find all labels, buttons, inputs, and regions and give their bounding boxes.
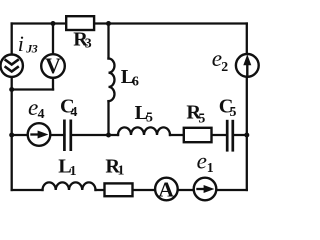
resistor R3 [66,16,94,30]
svg-text:2: 2 [221,59,228,74]
svg-text:1: 1 [70,163,77,178]
node at top wire / V branch [51,21,56,26]
wire bottom left segment [12,189,43,191]
wire top horizontal [12,22,247,24]
svg-text:5: 5 [146,110,153,125]
svg-text:6: 6 [132,74,139,89]
capacitor C5 [227,120,233,152]
svg-text:e: e [197,149,207,175]
wire left rail vertical [11,24,13,191]
node at middle row / L6 [106,133,111,138]
voltage source e2 [236,54,259,77]
wire middle row after C5 [233,134,247,136]
wire middle row between L5 and C5 [170,134,227,136]
voltmeter V [41,54,65,78]
wire right rail vertical [246,24,248,191]
svg-text:1: 1 [118,163,125,178]
inductor L1 [43,182,96,190]
inductor L5 [118,127,170,135]
voltage source e4 [28,123,51,146]
wire L6 branch bottom vertical [107,101,109,135]
svg-text:4: 4 [71,104,78,119]
voltage source e1 [194,178,217,201]
svg-text:A: A [158,177,174,201]
resistor R1 [105,183,133,196]
node at left rail / middle row [9,133,14,138]
inductor L6 [109,59,115,102]
svg-text:V: V [45,54,61,78]
node at top wire / L6 branch [106,21,111,26]
node at left rail / V return [9,87,14,92]
node at right rail / middle row [244,133,249,138]
svg-text:i: i [18,31,24,56]
capacitor C4 [64,120,70,152]
resistor R5 [184,128,212,142]
svg-text:5: 5 [230,104,237,119]
wire middle row left segment [12,134,65,136]
svg-text:5: 5 [198,111,205,126]
svg-text:3: 3 [85,35,92,50]
svg-text:1: 1 [207,160,214,175]
wire voltmeter branch horizontal [12,88,53,90]
svg-text:4: 4 [38,106,45,121]
wire middle row after C4 [71,134,118,136]
ammeter A [155,177,178,201]
current source iJ3 [1,54,23,76]
svg-text:J3: J3 [25,41,38,55]
wire bottom middle segment [96,189,247,191]
wire voltmeter branch vertical [52,24,54,90]
wire L6 branch top vertical [107,24,109,59]
